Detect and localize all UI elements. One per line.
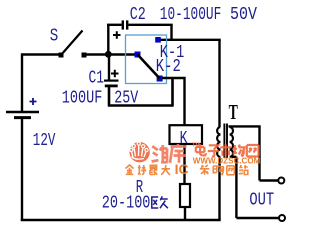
transformer T secondary winding	[230, 127, 233, 157]
wire C1 bottom lead to K-2 node	[108, 78, 174, 106]
watermark text qiu (CJK)	[138, 165, 146, 174]
resistor R body	[180, 184, 190, 207]
svg-text:OUT: OUT	[249, 191, 274, 211]
relay K-2 terminal square	[157, 76, 163, 82]
wire main top horizontal from left rail to switch	[21, 53, 59, 55]
watermark text zhan (CJK)	[239, 165, 248, 175]
wire C2 right lead	[128, 24, 172, 26]
wire left rail bottom (battery - side)	[21, 118, 23, 221]
wire bottom rail	[21, 219, 221, 222]
switch S blade	[61, 31, 83, 56]
svg-text:K-2: K-2	[156, 57, 181, 77]
OUT lower terminal circle	[279, 215, 285, 221]
switch S right contact dot	[82, 53, 87, 58]
watermark text dian (CJK)	[196, 144, 206, 155]
svg-text:WWW.DZSC.COM: WWW.DZSC.COM	[193, 157, 261, 166]
switch S left contact dot	[59, 53, 64, 58]
watermark text da (CJK)	[161, 165, 170, 175]
OUT upper terminal circle	[278, 178, 284, 184]
transformer T primary winding	[217, 127, 220, 157]
svg-text:S: S	[50, 27, 59, 47]
relay contact box (blue)	[126, 35, 167, 84]
wire C1 branch down	[108, 55, 110, 81]
wire secondary top to OUT upper terminal	[229, 126, 279, 180]
wire left rail top (battery + side)	[21, 54, 23, 112]
svg-text:10-100UF: 10-100UF	[160, 5, 222, 25]
C2 plus sign	[113, 31, 121, 39]
wire coil K to resistor R	[183, 144, 185, 184]
wire C2 drop to K-1 line	[170, 25, 172, 40]
watermark text quan (CJK)	[126, 165, 134, 174]
transformer T core lines	[224, 124, 227, 159]
wire C2 left lead	[107, 24, 122, 26]
relay common terminal square	[135, 52, 141, 58]
capacitor C1 bottom plate	[105, 85, 118, 88]
relay coil box K	[170, 125, 203, 144]
svg-text:100UF: 100UF	[62, 88, 103, 108]
watermark text wang (CJK)	[247, 145, 259, 157]
wire secondary bottom to OUT lower terminal	[230, 157, 279, 218]
wire switch to relay common	[86, 53, 135, 55]
svg-text:20-100: 20-100	[102, 194, 151, 214]
watermark text gou (CJK)	[213, 165, 223, 174]
watermark text zi (CJK)	[208, 145, 219, 156]
svg-text:IC: IC	[175, 161, 189, 177]
watermark text zui (CJK)	[150, 165, 157, 175]
svg-text:T: T	[229, 100, 238, 124]
battery B1 12V long plate	[6, 111, 39, 113]
capacitor C1 top plate	[104, 79, 119, 81]
battery B1 short plate	[14, 116, 31, 119]
svg-text:C2: C2	[130, 5, 146, 25]
svg-text:12V: 12V	[33, 131, 56, 151]
capacitor C2 left plate	[122, 20, 124, 29]
watermark text chang (CJK)	[233, 145, 245, 157]
wire transformer primary bottom to rail	[218, 157, 220, 220]
capacitor C2 right plate	[126, 20, 128, 29]
wire resistor R to bottom rail	[184, 207, 186, 220]
relay blade (common to K-2)	[138, 55, 160, 79]
junction node dot (C1/C2 branch)	[105, 51, 112, 58]
watermark text ku (CJK)	[170, 144, 187, 163]
watermark text wang2 (CJK)	[227, 166, 235, 175]
watermark logo circle	[129, 142, 149, 162]
battery plus sign	[30, 98, 37, 105]
relay K-1 terminal square	[155, 37, 161, 43]
svg-text:50V: 50V	[230, 5, 257, 25]
watermark text cai (CJK)	[200, 165, 210, 175]
svg-text:C1: C1	[89, 68, 105, 88]
label ohm CJK (ou)	[152, 196, 168, 208]
watermark text shi (CJK)	[220, 144, 231, 156]
wire K-1 contact to transformer drop	[160, 39, 221, 41]
watermark text wei (CJK)	[152, 145, 168, 163]
wire C2 branch up	[107, 25, 109, 56]
wire K-2 to relay coil drop	[162, 78, 186, 126]
wire drop to transformer primary top	[218, 40, 220, 127]
C1 plus sign	[111, 70, 119, 77]
